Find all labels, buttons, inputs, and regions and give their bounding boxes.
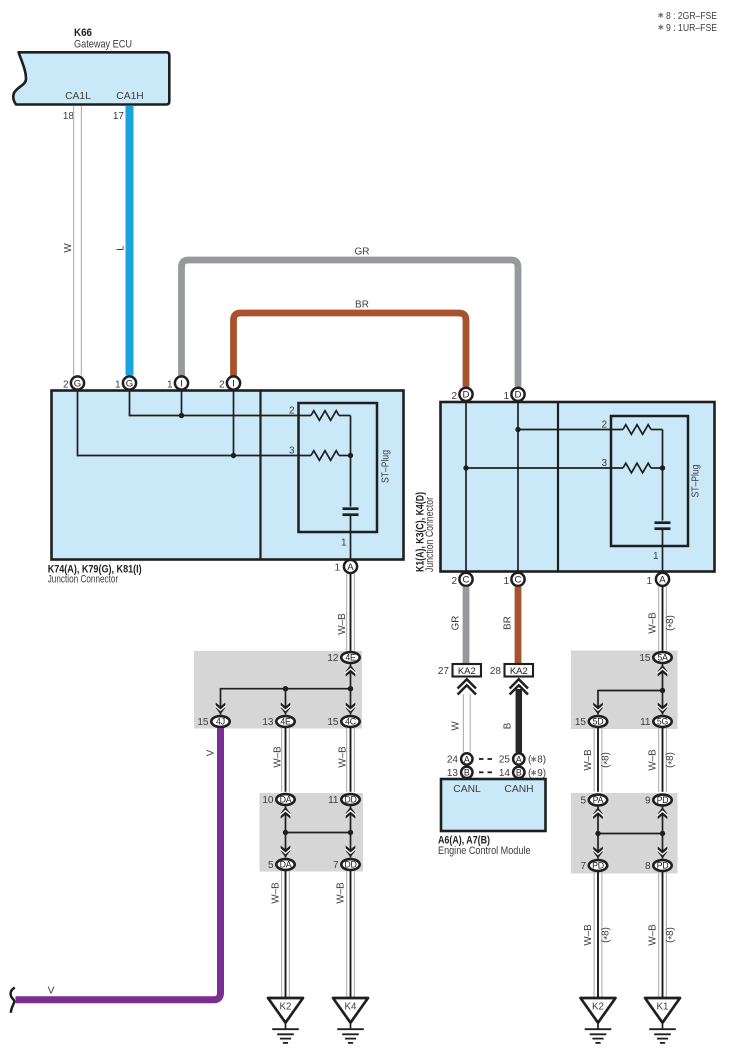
svg-text:9): 9) [537, 768, 546, 779]
svg-text:1: 1 [167, 380, 173, 391]
svg-text:A: A [347, 562, 354, 573]
svg-text:Engine Control Module: Engine Control Module [438, 845, 531, 857]
svg-text:8: 8 [645, 861, 651, 872]
svg-text:W–B: W–B [273, 746, 284, 768]
svg-text:A: A [464, 754, 470, 764]
svg-text:W–B: W–B [271, 882, 282, 904]
svg-text:7: 7 [580, 861, 586, 872]
svg-text:10: 10 [262, 795, 274, 806]
svg-text:15: 15 [327, 717, 339, 728]
svg-text:4E: 4E [345, 653, 356, 663]
svg-text:11: 11 [640, 717, 651, 728]
svg-text:1: 1 [115, 380, 121, 391]
svg-text:12: 12 [327, 653, 339, 664]
svg-text:W: W [63, 243, 74, 253]
svg-text:G: G [74, 378, 81, 389]
svg-text:CA1H: CA1H [116, 91, 143, 102]
svg-text:D: D [515, 390, 522, 401]
svg-text:A: A [516, 754, 522, 764]
svg-text:W–B: W–B [648, 924, 659, 946]
svg-text:BR: BR [355, 300, 369, 311]
svg-text:5: 5 [580, 796, 586, 807]
svg-text:2: 2 [63, 380, 69, 391]
svg-text:1: 1 [503, 391, 509, 402]
svg-text:V: V [48, 985, 55, 996]
svg-text:4C: 4C [345, 717, 357, 727]
svg-text:DA: DA [280, 860, 292, 870]
svg-text:CA1L: CA1L [65, 91, 91, 102]
svg-text:PD: PD [657, 795, 669, 805]
svg-text:1: 1 [653, 551, 659, 562]
svg-text:Junction Connector: Junction Connector [48, 574, 119, 586]
svg-text:A: A [659, 575, 666, 586]
svg-text:I: I [232, 378, 235, 389]
svg-text:L: L [116, 245, 127, 251]
svg-text:W: W [451, 721, 462, 731]
svg-text:13: 13 [262, 717, 274, 728]
svg-text:2: 2 [451, 576, 457, 587]
svg-text:18: 18 [63, 111, 75, 122]
svg-text:28: 28 [490, 666, 502, 677]
svg-text:ST–Plug: ST–Plug [691, 465, 702, 498]
svg-text:4E: 4E [280, 717, 291, 727]
svg-text:C: C [463, 575, 470, 586]
svg-text:B: B [503, 722, 514, 729]
svg-text:DD: DD [344, 860, 356, 870]
svg-text:11: 11 [328, 795, 339, 806]
svg-text:CANH: CANH [504, 784, 533, 795]
svg-text:1: 1 [503, 576, 509, 587]
svg-text:BR: BR [503, 616, 514, 630]
svg-text:1: 1 [341, 538, 347, 549]
svg-text:3: 3 [289, 446, 295, 457]
svg-text:CANL: CANL [453, 784, 481, 795]
svg-text:W–B: W–B [583, 749, 594, 771]
svg-text:K1: K1 [657, 1002, 669, 1013]
svg-text:I: I [180, 378, 183, 389]
svg-text:17: 17 [113, 111, 125, 122]
svg-text:9 : 1UR–FSE: 9 : 1UR–FSE [666, 23, 717, 34]
svg-text:2: 2 [289, 406, 295, 417]
svg-text:7: 7 [333, 860, 339, 871]
svg-text:W–B: W–B [648, 749, 659, 771]
svg-text:PA: PA [593, 795, 604, 805]
svg-text:24: 24 [447, 755, 459, 766]
svg-text:C: C [515, 575, 522, 586]
svg-text:V: V [206, 749, 217, 756]
svg-text:KA2: KA2 [510, 666, 528, 677]
svg-text:W–B: W–B [338, 746, 349, 768]
svg-text:4J: 4J [216, 717, 225, 727]
svg-text:9: 9 [645, 796, 651, 807]
svg-text:K4: K4 [345, 1002, 358, 1013]
svg-text:K66: K66 [74, 27, 92, 39]
svg-text:KA2: KA2 [458, 666, 476, 677]
svg-text:25: 25 [499, 755, 511, 766]
svg-text:2: 2 [219, 380, 225, 391]
svg-text:PD: PD [592, 861, 604, 871]
svg-text:Gateway ECU: Gateway ECU [74, 39, 132, 51]
svg-text:K2: K2 [592, 1002, 604, 1013]
svg-text:W–B: W–B [336, 882, 347, 904]
svg-text:PD: PD [657, 861, 669, 871]
svg-text:1: 1 [334, 563, 340, 574]
svg-text:14: 14 [499, 768, 511, 779]
svg-text:G: G [126, 378, 133, 389]
svg-text:2: 2 [601, 420, 607, 431]
svg-text:DD: DD [344, 795, 356, 805]
svg-text:15: 15 [575, 717, 587, 728]
svg-text:DA: DA [280, 795, 292, 805]
svg-text:GR: GR [451, 616, 462, 631]
svg-text:8 : 2GR–FSE: 8 : 2GR–FSE [666, 11, 717, 22]
svg-text:1: 1 [646, 576, 652, 587]
svg-text:Junction Connector: Junction Connector [424, 497, 436, 572]
svg-text:W–B: W–B [337, 613, 348, 635]
svg-text:D: D [463, 390, 470, 401]
svg-text:W–B: W–B [583, 924, 594, 946]
svg-text:13: 13 [447, 768, 459, 779]
svg-text:B: B [464, 768, 470, 778]
svg-text:3: 3 [601, 458, 607, 469]
svg-text:2: 2 [451, 391, 457, 402]
svg-text:5: 5 [268, 860, 274, 871]
svg-text:B: B [516, 768, 522, 778]
svg-text:K2: K2 [280, 1002, 292, 1013]
svg-text:15: 15 [639, 653, 651, 664]
svg-text:27: 27 [438, 666, 450, 677]
svg-text:15: 15 [197, 717, 209, 728]
svg-text:GR: GR [355, 247, 370, 258]
svg-text:W–B: W–B [648, 612, 659, 634]
svg-text:5A: 5A [657, 653, 668, 663]
svg-text:5D: 5D [593, 717, 604, 727]
svg-text:5G: 5G [657, 717, 669, 727]
svg-text:ST–Plug: ST–Plug [381, 450, 392, 483]
svg-text:8): 8) [537, 755, 546, 766]
